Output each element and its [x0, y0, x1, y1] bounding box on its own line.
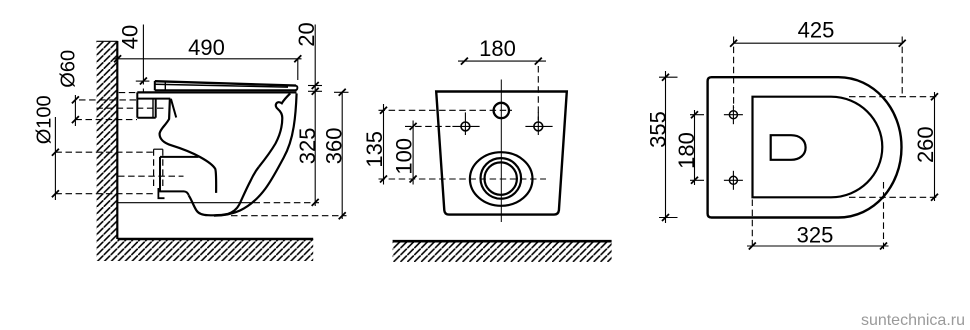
svg-text:suntechnica.ru: suntechnica.ru [861, 312, 965, 329]
svg-text:180: 180 [479, 36, 516, 61]
svg-text:360: 360 [321, 128, 346, 165]
svg-text:325: 325 [295, 128, 320, 165]
svg-text:20: 20 [294, 22, 319, 46]
svg-text:Ø100: Ø100 [34, 95, 56, 144]
svg-text:355: 355 [645, 111, 670, 148]
svg-text:180: 180 [674, 132, 699, 169]
svg-text:425: 425 [798, 18, 835, 43]
svg-text:40: 40 [118, 25, 143, 49]
svg-text:260: 260 [913, 126, 938, 163]
svg-text:Ø60: Ø60 [58, 50, 80, 88]
svg-text:100: 100 [392, 138, 417, 175]
svg-text:325: 325 [797, 223, 834, 248]
svg-text:490: 490 [188, 35, 225, 60]
svg-text:135: 135 [362, 131, 387, 168]
